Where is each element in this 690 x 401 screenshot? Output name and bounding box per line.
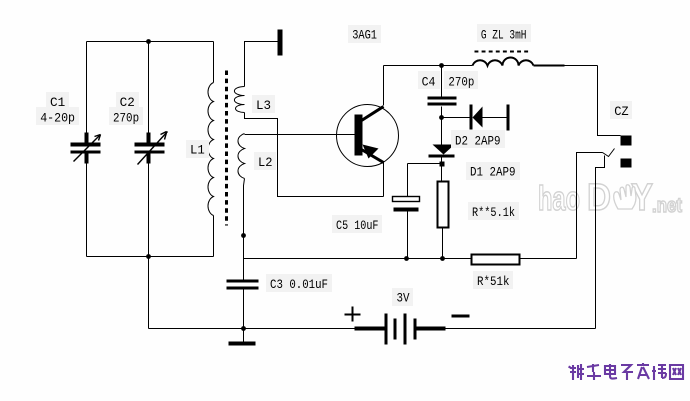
svg-text:L1: L1 [190,143,205,158]
node junction on L2-C3 wire [241,233,246,238]
wire top-left rail C1top to L1 top [87,41,214,43]
label GZL 3mH [481,27,527,42]
GZL core dashes [475,51,531,53]
inductor L3 [234,87,244,113]
svg-text:3AG1: 3AG1 [352,28,377,43]
svg-text:D2 2AP9: D2 2AP9 [455,134,501,149]
svg-text:D1 2AP9: D1 2AP9 [470,165,516,180]
wire C5 top link [408,163,442,165]
label 3V [397,291,410,306]
svg-text:270p: 270p [113,110,139,125]
capacitor C5 [393,164,420,259]
logo text 精华电子文摘网 [569,363,683,380]
svg-text:CZ: CZ [614,104,629,119]
label CZ [614,104,629,119]
svg-text:hao: hao [538,180,580,218]
svg-text:C3 0.01uF: C3 0.01uF [270,277,328,292]
antenna bar [278,30,283,56]
svg-text:R*51k: R*51k [477,274,510,289]
wire C2 top lead [148,42,150,135]
node junction C4-D2-D1 [439,115,444,120]
svg-text:C4: C4 [422,74,436,89]
label C1 [50,95,65,110]
node junction C2 top [146,39,151,44]
label L3 [256,98,271,113]
battery minus sign [452,315,470,318]
resistor R** 5.1k [438,182,449,228]
value label 4-20p [40,110,75,125]
node junction ground rail [241,326,246,331]
wire emitter down [383,163,385,197]
label L2 [258,155,273,170]
wire C2 bottom lead [148,163,150,257]
battery B1 3V [355,314,446,345]
capacitor C1 [71,133,101,164]
resistor R* 51k [472,255,520,265]
wire mid rail up to jack switch [577,153,603,259]
label C4 [422,74,436,89]
svg-text:L2: L2 [258,155,273,170]
battery plus sign [345,307,361,322]
svg-text:C5 10uF: C5 10uF [336,218,379,233]
wire to D2 [442,117,470,119]
label D2 2AP9 [455,134,501,149]
svg-text:G ZL 3mH: G ZL 3mH [481,27,527,42]
svg-text:C2: C2 [120,95,135,110]
label L1 [190,143,205,158]
wire jack sleeve down [596,156,605,329]
svg-text:3V: 3V [397,291,410,306]
wire collector up [383,66,385,106]
label D1 2AP9 [470,165,516,180]
label R* 51k [477,274,510,289]
wire C4 top lead [441,66,443,97]
wire battery rail right [446,328,596,330]
diode D1 [429,118,455,182]
inductor L1 [208,42,214,257]
wire L2 tap to base [245,134,355,136]
inductor L2 [238,134,245,179]
svg-text:R**5.1k: R**5.1k [472,205,515,220]
wire top rail collector to inductor [384,65,473,67]
wire C4 bottom lead [441,107,443,118]
ground [229,329,256,346]
capacitor C3 [227,280,259,290]
wire down to battery rail [148,257,150,329]
label C2 [120,95,135,110]
node junction D1-C5 [440,162,445,167]
wire bottom-left rail [87,256,214,258]
label R** 5.1k [472,205,515,220]
diode D2 [470,105,510,131]
watermark haoDY.net [538,177,682,219]
wire L2 bottom lead to C3 [244,179,245,280]
svg-text:270p: 270p [448,74,474,89]
wire battery rail left [149,328,355,330]
svg-text:.net: .net [652,195,682,217]
wire top rail inductor to corner [534,65,598,67]
wire down to jack tip [598,66,621,136]
wire L3 bottom to emitter link [245,113,384,197]
inductor GZL 3mH [473,58,534,66]
value label 270p C4 [448,74,474,89]
wire C1 bottom lead [86,163,88,257]
wire R** bottom lead [442,227,444,259]
label C5 10uF [336,218,379,233]
svg-text:L3: L3 [256,98,271,113]
label C3 0.01uF [270,277,328,292]
label halo backgrounds [36,24,632,306]
jack switch contact check [603,149,615,157]
capacitor C2 [135,132,168,165]
node junction C4 top [439,63,444,68]
transistor Q1 3AG1 [337,105,399,167]
wire C1 top lead [86,42,88,135]
svg-text:4-20p: 4-20p [40,110,75,125]
node junction R** bottom [440,256,445,261]
label 3AG1 [352,28,377,43]
wire L3 top lead to antenna [245,42,278,87]
wire C3 bottom lead [243,290,245,329]
jack CZ body [621,136,632,168]
capacitor C4 [428,97,457,106]
transformer core [225,71,228,226]
node junction C5 bottom [404,256,409,261]
node junction C2 bottom [146,254,151,259]
svg-text:C1: C1 [50,95,65,110]
svg-text:D: D [587,177,611,219]
wire mid rail [244,258,577,260]
value label 270p [113,110,139,125]
